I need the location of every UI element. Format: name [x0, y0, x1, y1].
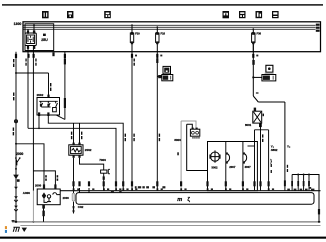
svg-text:7000: 7000 — [99, 158, 106, 162]
svg-text:2000: 2000 — [63, 196, 70, 200]
svg-text:2007: 2007 — [229, 165, 236, 169]
svg-text:2002: 2002 — [85, 148, 92, 152]
svg-text:3002: 3002 — [211, 166, 218, 170]
svg-text:3000: 3000 — [174, 138, 181, 142]
svg-text:ζ: ζ — [187, 197, 190, 203]
svg-text:F36: F36 — [257, 31, 262, 35]
svg-text:2000: 2000 — [16, 152, 23, 156]
svg-text:6001: 6001 — [245, 123, 252, 127]
svg-text:25U: 25U — [41, 38, 48, 42]
svg-text:1300: 1300 — [14, 22, 22, 26]
svg-text:F16: F16 — [161, 31, 166, 35]
svg-text:4802: 4802 — [271, 148, 278, 152]
svg-text:m: m — [177, 197, 182, 203]
svg-text:A000: A000 — [23, 191, 31, 195]
svg-text:2000: 2000 — [35, 184, 42, 188]
svg-text:4007: 4007 — [245, 165, 252, 169]
svg-text:2002: 2002 — [37, 93, 44, 97]
svg-text:}: } — [270, 159, 272, 164]
svg-text:C02: C02 — [78, 205, 84, 209]
svg-text:F10: F10 — [135, 31, 140, 35]
